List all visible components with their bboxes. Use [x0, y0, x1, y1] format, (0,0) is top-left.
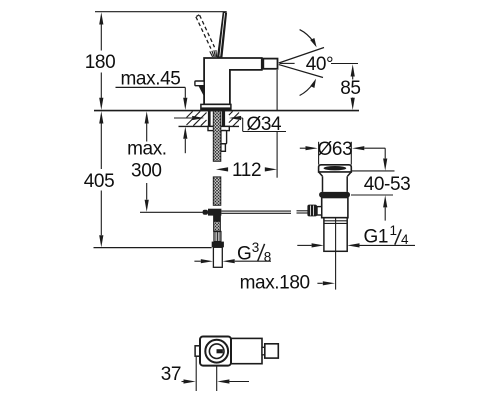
- svg-text:4: 4: [401, 232, 409, 247]
- lever (dashed alternate position): [196, 15, 215, 49]
- flexible hose segment 3: [214, 216, 221, 232]
- svg-text:112: 112: [232, 160, 261, 181]
- svg-text:1: 1: [390, 223, 397, 238]
- dimension 37: [182, 357, 250, 391]
- drain tailpipe: [324, 218, 347, 252]
- dimension 40-53: [351, 148, 395, 220]
- drain O-ring: [319, 192, 350, 198]
- bottom reference line (hose end level): [94, 247, 212, 249]
- spray lower line: [279, 65, 323, 78]
- drain neck with chamfer: [319, 172, 352, 192]
- extension line top (spout height reference): [95, 11, 227, 13]
- flexible hose segment 2: [213, 177, 221, 205]
- svg-text:85: 85: [340, 78, 360, 99]
- countertop line: [94, 110, 359, 112]
- svg-text:405: 405: [84, 171, 115, 192]
- pivot fan ticks: [210, 50, 217, 57]
- spray upper line: [279, 48, 324, 64]
- counter hatching left: [187, 111, 207, 125]
- svg-text:G: G: [237, 244, 251, 265]
- G3/8 dimension arrows: [194, 259, 271, 263]
- extension line from spout tip: [276, 70, 278, 111]
- top view: outer circle: [205, 340, 228, 363]
- counter hatching right: [229, 111, 239, 126]
- svg-text:G1: G1: [364, 227, 389, 248]
- dimension max.300 vertical line: [145, 111, 149, 212]
- svg-text:300: 300: [131, 160, 162, 181]
- drain plug cap ellipse: [324, 166, 347, 170]
- svg-text:180: 180: [85, 52, 116, 73]
- angle arc lower with arrow: [300, 79, 316, 96]
- max.45 arrow below counter pointing up: [183, 127, 187, 154]
- svg-text:Ø63: Ø63: [318, 139, 353, 160]
- label G 3/8: [237, 240, 271, 265]
- dark wedge under tab: [198, 86, 204, 97]
- pop-up rod left reference line: [140, 211, 203, 213]
- dimension 405 vertical line: [99, 111, 103, 247]
- dimension 112 arrows: [216, 167, 277, 171]
- mounting stud: [221, 131, 227, 144]
- top view: body square: [200, 337, 231, 366]
- hose threaded connector: [214, 232, 221, 242]
- mousseur tip box: [263, 59, 277, 69]
- dimension G1 1/4 arrows: [297, 243, 415, 247]
- dimension 85 vertical line: [351, 64, 355, 110]
- connection tube G3/8: [213, 247, 222, 267]
- spray centerline: [280, 62, 295, 64]
- top view: inner circle: [209, 344, 224, 359]
- flexible hose segment 1: [213, 111, 221, 161]
- label G1 1/4: [364, 223, 410, 248]
- drain centerline: [335, 218, 337, 290]
- max.180 arrow to centerline: [317, 281, 335, 285]
- drain body: [322, 198, 348, 218]
- side tab on body: [195, 81, 204, 86]
- drain knob stem: [317, 207, 322, 215]
- pop-up rod fitting at hose: [203, 210, 208, 215]
- svg-text:37: 37: [161, 364, 181, 385]
- top view: step connector: [262, 347, 265, 355]
- hose connection nut: [212, 242, 224, 248]
- svg-text:40-53: 40-53: [364, 174, 411, 195]
- angle arc upper with arrow: [300, 30, 317, 48]
- dimension 180 vertical line: [99, 12, 103, 110]
- shank walls in hole: [208, 111, 211, 126]
- svg-text:40°: 40°: [306, 54, 334, 75]
- drain plug flange: [319, 165, 352, 172]
- top view: spout: [231, 338, 262, 363]
- dimension Ø34 arrows at mounting hole: [174, 116, 286, 132]
- svg-text:8: 8: [264, 249, 271, 264]
- mounting nut: [221, 144, 226, 152]
- counter bottom line: [179, 125, 240, 127]
- washer under counter: [208, 126, 229, 130]
- svg-text:max.180: max.180: [240, 273, 310, 294]
- drain extension lines: [318, 142, 320, 165]
- lever (solid position): [217, 12, 227, 58]
- dimension Ø63: [300, 146, 386, 150]
- svg-text:max.: max.: [127, 139, 167, 160]
- svg-text:max.45: max.45: [121, 69, 181, 90]
- faucet body outline: [204, 58, 262, 104]
- top view: side tab: [195, 346, 200, 356]
- max.45 leader shelf and arrow to countertop: [116, 87, 188, 110]
- drain rod knob: [307, 205, 317, 217]
- pop-up rod to drain (with break): [221, 211, 307, 214]
- top view: mousseur tip: [265, 344, 279, 358]
- faucet base flange: [201, 104, 231, 110]
- top view: center bar: [217, 349, 223, 353]
- svg-text:3: 3: [252, 240, 259, 255]
